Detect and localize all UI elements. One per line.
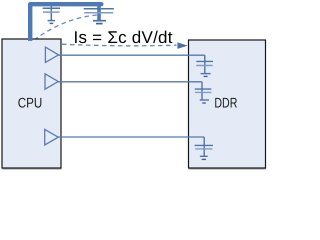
CPU box shadow: [2, 41, 61, 170]
capacitor C1 (decoupling cap on rail): [43, 5, 60, 21]
DDR box shadow: [189, 42, 266, 170]
CPU box: [2, 39, 61, 168]
ground of C1: [48, 21, 56, 24]
ground of C2: [93, 21, 106, 24]
capacitor C2 (bulk cap at rail end): [84, 5, 114, 21]
arrowhead of Is annotation: [177, 42, 187, 49]
wire VDD rail rounded end: [99, 2, 103, 6]
wire signal line 2: [58, 81, 202, 83]
dashed Is annotation line: [62, 44, 177, 46]
buffer U3 (lower driver triangle): [45, 129, 59, 145]
svg-text:CPU: CPU: [18, 95, 43, 111]
buffer U1 (top driver triangle): [45, 47, 58, 62]
buffer U2 (middle driver triangle): [45, 74, 58, 89]
wire VDD thick rail: [30, 4, 101, 41]
wire signal line 1: [59, 54, 205, 56]
svg-text:DDR: DDR: [214, 95, 237, 111]
capacitor C5 (DDR pin cap 3): [195, 137, 213, 159]
wire signal line 3: [58, 136, 204, 138]
svg-text:Is = Σc dV/dt: Is = Σc dV/dt: [74, 28, 173, 47]
capacitor C4 (DDR pin cap 2): [195, 82, 212, 103]
dashed current loop from CPU pin to C2 ground: [34, 15, 97, 40]
capacitor C3 (DDR pin cap 1): [196, 55, 213, 76]
DDR box: [189, 40, 266, 168]
